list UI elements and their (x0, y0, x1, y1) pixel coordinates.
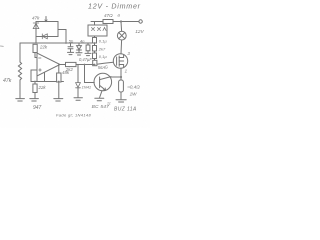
svg-text:1W: 1W (130, 91, 138, 96)
svg-text:0,1µ: 0,1µ (99, 39, 108, 44)
svg-text:Fade Fade > 1N4148gt; 1N4148: Fade Fade > 1N4148gt; 1N4148 (56, 112, 91, 117)
svg-text:12V: 12V (135, 29, 144, 35)
svg-text:947: 947 (33, 105, 42, 111)
svg-text:47Ω: 47Ω (104, 13, 113, 18)
svg-text:≈0,4Ω: ≈0,4Ω (127, 84, 140, 89)
svg-text:2k7: 2k7 (98, 47, 106, 52)
svg-text:22k: 22k (38, 85, 47, 90)
svg-text:0,47µF: 0,47µF (79, 57, 92, 62)
svg-text:0,1µ: 0,1µ (99, 54, 108, 59)
svg-text:4n: 4n (80, 38, 85, 43)
svg-text:2k2: 2k2 (65, 67, 74, 72)
svg-text:47k: 47k (32, 16, 40, 21)
svg-text:1N41: 1N41 (82, 85, 92, 90)
svg-text:BUZ 11A: BUZ 11A (114, 107, 137, 113)
svg-text:BC 547: BC 547 (92, 104, 110, 110)
svg-text:5b: 5b (69, 38, 74, 43)
svg-text:12V - Dimmer: 12V - Dimmer (88, 2, 141, 10)
svg-text:47k: 47k (3, 78, 12, 84)
svg-text:22k: 22k (39, 45, 48, 50)
